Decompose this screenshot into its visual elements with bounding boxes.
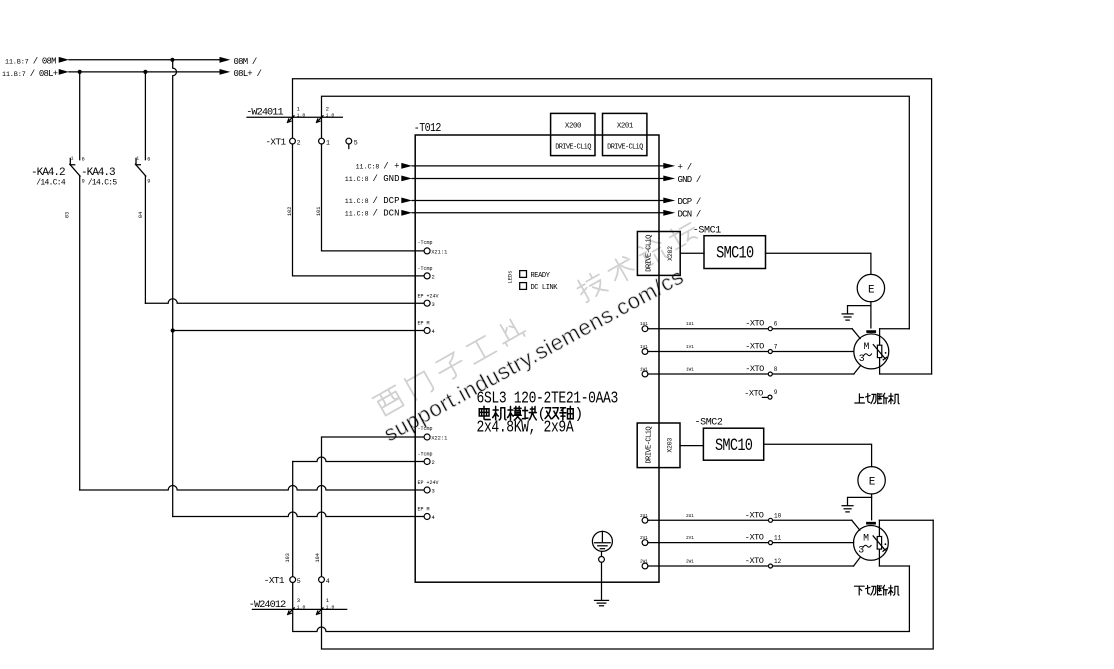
ground symbol PE bbox=[595, 600, 609, 605]
svg-text:5: 5 bbox=[354, 140, 358, 147]
encoder E2 bbox=[858, 467, 885, 494]
svg-text:2x4.8KW, 2x9A: 2x4.8KW, 2x9A bbox=[477, 417, 575, 437]
svg-text:DCP /: DCP / bbox=[678, 197, 701, 207]
svg-text:5: 5 bbox=[297, 578, 301, 585]
terminal XT1:4 bbox=[319, 577, 325, 583]
wire motor2 sensor top to outer bottom loop bbox=[879, 519, 933, 521]
svg-text:X201: X201 bbox=[617, 122, 634, 130]
svg-text:1.0: 1.0 bbox=[297, 113, 306, 119]
svg-text:1: 1 bbox=[136, 156, 139, 162]
svg-text:12: 12 bbox=[774, 558, 782, 565]
wire X202 to SMC1 bbox=[680, 252, 704, 254]
svg-text:-T012: -T012 bbox=[414, 122, 441, 135]
svg-text:103: 103 bbox=[285, 553, 291, 562]
PE pin bbox=[599, 551, 605, 562]
svg-text:03: 03 bbox=[64, 212, 70, 218]
svg-text:M: M bbox=[864, 341, 870, 352]
svg-text:9: 9 bbox=[82, 179, 85, 185]
junction dot 08L+ / KA4.2 bbox=[78, 70, 82, 74]
connector X201 DRIVE-CLiQ bbox=[603, 113, 647, 155]
junction dot 08M / EP M feeder bbox=[170, 58, 174, 62]
svg-text:-XTO: -XTO bbox=[744, 389, 763, 399]
svg-text:): ) bbox=[575, 407, 584, 423]
svg-text:READY: READY bbox=[531, 272, 551, 280]
wire motor1 sensor top to inner loop bbox=[880, 328, 910, 330]
wire PE to ground bbox=[601, 562, 603, 600]
wire E2 down to motor shield bbox=[871, 494, 873, 520]
wire KA4.2 to X22:3 EP +24V with hops bbox=[80, 486, 425, 490]
svg-text:3: 3 bbox=[858, 544, 864, 555]
wire KA4.3 lower drop (wire 04) bbox=[144, 176, 146, 303]
svg-text:DC LINK: DC LINK bbox=[531, 284, 559, 292]
svg-text:EP +24V: EP +24V bbox=[418, 480, 439, 486]
wire 08M drop with hop over 08L+ bbox=[173, 60, 177, 331]
svg-text:6: 6 bbox=[774, 321, 778, 328]
svg-text:SMC10: SMC10 bbox=[716, 243, 754, 263]
svg-text:X202: X202 bbox=[667, 246, 674, 261]
wire X203 to SMC2 bbox=[680, 445, 703, 447]
svg-text:E: E bbox=[869, 477, 876, 489]
wire 101 inner loop: XT1:1 up and across to motor 1 sensor bbox=[322, 96, 910, 329]
wire phase 1U with terminal XTO6 bbox=[648, 319, 860, 339]
ground symbol E1 bbox=[842, 314, 853, 320]
spare terminal XTO9 bbox=[744, 389, 778, 399]
svg-text:-Tcmp: -Tcmp bbox=[418, 240, 433, 246]
brake/shield bar motor 2 bbox=[866, 522, 876, 525]
temperature sensor motor 2 bbox=[873, 520, 886, 566]
svg-text:1: 1 bbox=[326, 140, 330, 147]
terminal XT1:1 bbox=[319, 138, 325, 144]
svg-text:11.C:8 / GND: 11.C:8 / GND bbox=[345, 174, 400, 184]
svg-text:2: 2 bbox=[297, 140, 301, 147]
svg-text:4: 4 bbox=[326, 578, 330, 585]
wire 08M bus bbox=[69, 59, 220, 61]
wire to X21:4 EP M bbox=[173, 330, 425, 332]
ground branch E1 bbox=[848, 306, 871, 314]
wire KA4.2 lower drop (wire 03) bbox=[79, 176, 81, 490]
svg-text:-XTO: -XTO bbox=[745, 556, 764, 566]
svg-text:9: 9 bbox=[774, 389, 778, 396]
svg-text:SMC10: SMC10 bbox=[715, 435, 753, 455]
svg-text:6: 6 bbox=[147, 157, 150, 163]
encoder module SMC1 box SMC10 bbox=[704, 236, 766, 269]
svg-text:X203: X203 bbox=[667, 438, 674, 453]
brake/shield bar motor 1 bbox=[866, 330, 876, 333]
pin 2U2 module output bbox=[640, 514, 648, 523]
svg-text:1W1: 1W1 bbox=[686, 368, 694, 373]
pin 2V2 module output bbox=[640, 536, 648, 545]
pin 1W2 module output bbox=[640, 368, 648, 377]
svg-text:2: 2 bbox=[432, 275, 435, 281]
connector X203 DRIVE-CLiQ bbox=[637, 423, 680, 468]
svg-text:1.0: 1.0 bbox=[326, 113, 335, 119]
wire XT1:5 down to bottom loop with hop bbox=[293, 566, 910, 632]
svg-text:3: 3 bbox=[859, 353, 865, 364]
svg-text:1: 1 bbox=[297, 105, 301, 112]
svg-text:DRIVE-CLiQ: DRIVE-CLiQ bbox=[555, 144, 591, 152]
svg-text:11.B:7 / 08M: 11.B:7 / 08M bbox=[5, 57, 56, 67]
svg-text:/14.C:4: /14.C:4 bbox=[36, 178, 66, 187]
wire KA4.3 to X21:3 EP +24V with hop bbox=[145, 299, 424, 303]
pin X21:2 -Tcmp bbox=[418, 266, 435, 281]
svg-text:-SMC1: -SMC1 bbox=[693, 225, 721, 236]
svg-text:1: 1 bbox=[71, 156, 74, 162]
net 08M right arrow bbox=[220, 57, 231, 63]
svg-text:-XT1: -XT1 bbox=[264, 575, 285, 586]
terminal XT1:3 spare bbox=[346, 138, 358, 148]
pin X22:4 EP M bbox=[418, 507, 435, 522]
encoder E1 bbox=[857, 274, 884, 301]
wire 102 outer loop: XT1:2 up and across to motor 1 sensor bbox=[293, 79, 932, 374]
wire phase 1V with terminal XTO7 bbox=[648, 342, 854, 354]
wire motor1 sensor bottom to outer loop bbox=[880, 373, 932, 375]
svg-text:DRIVE-CLiQ: DRIVE-CLiQ bbox=[607, 144, 643, 152]
wire phase 2W with terminal XTO12 bbox=[648, 556, 860, 568]
net 08M left arrow bbox=[59, 57, 69, 63]
LED READY bbox=[520, 271, 551, 280]
svg-text:1V1: 1V1 bbox=[686, 345, 694, 350]
junction dot 08L+ / KA4.3 bbox=[143, 70, 147, 74]
cable -W24011 bbox=[246, 105, 342, 122]
svg-text:3: 3 bbox=[432, 489, 435, 495]
svg-text:+ /: + / bbox=[678, 162, 692, 172]
svg-text:3: 3 bbox=[297, 597, 300, 604]
svg-text:LEDs: LEDs bbox=[508, 271, 514, 284]
motor 2 circle M 3~ bbox=[854, 526, 889, 561]
svg-text:08M /: 08M / bbox=[234, 57, 257, 67]
wire to X22:4 EP M with hops bbox=[173, 512, 425, 517]
wire 103: X22:2 down through XT1:5 to bottom loop bbox=[292, 462, 294, 577]
wire 08L+ bus bbox=[69, 71, 220, 73]
svg-text:11.C:8 / DCP: 11.C:8 / DCP bbox=[345, 196, 400, 206]
net 08L+ right arrow bbox=[220, 69, 231, 75]
pin X22:1 -Tcmp bbox=[418, 426, 448, 442]
svg-text:/14.C:5: /14.C:5 bbox=[88, 178, 118, 187]
wire phase 2U with terminal XTO10 bbox=[648, 510, 860, 530]
svg-text:-Tcmp: -Tcmp bbox=[418, 426, 433, 432]
svg-text:-Tcmp: -Tcmp bbox=[418, 452, 433, 458]
svg-text:E: E bbox=[868, 284, 875, 296]
svg-text:-XTO: -XTO bbox=[745, 319, 764, 329]
wire XT1:4 down to bottom outer loop bbox=[322, 520, 934, 649]
svg-text:-KA4.2: -KA4.2 bbox=[31, 167, 65, 179]
svg-text:-Tcmp: -Tcmp bbox=[418, 266, 433, 272]
connector X202 DRIVE-CLiQ bbox=[637, 232, 680, 276]
svg-text:10: 10 bbox=[774, 512, 782, 519]
wire XT1:1 down to X21:1 bbox=[322, 144, 425, 251]
svg-text:X22:1: X22:1 bbox=[431, 436, 447, 442]
motor module T012 box bbox=[415, 135, 659, 582]
svg-text:-XTO: -XTO bbox=[745, 342, 764, 352]
svg-text:4: 4 bbox=[432, 515, 435, 521]
encoder module SMC2 box SMC10 bbox=[703, 428, 763, 460]
watermark line A 西门子工业 技术论坛 bbox=[373, 219, 700, 417]
wire KA4.2 upper drop bbox=[79, 72, 81, 160]
svg-text:-XTO: -XTO bbox=[745, 364, 764, 374]
svg-text:4: 4 bbox=[432, 329, 435, 335]
wire phase 2V with terminal XTO11 bbox=[648, 533, 854, 545]
svg-text:1.0: 1.0 bbox=[297, 605, 306, 611]
ground branch E2 bbox=[848, 497, 872, 505]
svg-text:EP +24V: EP +24V bbox=[418, 293, 439, 299]
wire phase 1W with terminal XTO8 bbox=[648, 364, 861, 376]
wire DC DCP bbox=[345, 196, 701, 207]
cable -W24012 bbox=[249, 597, 347, 614]
svg-text:1.0: 1.0 bbox=[326, 605, 335, 611]
junction dot EP M X21:4 bbox=[171, 328, 175, 332]
svg-text:2: 2 bbox=[326, 105, 329, 112]
PE symbol circle bbox=[592, 531, 612, 551]
svg-text:DRIVE-CLiQ: DRIVE-CLiQ bbox=[646, 235, 654, 272]
svg-text:04: 04 bbox=[138, 212, 144, 218]
ground symbol E2 bbox=[842, 506, 853, 512]
wire X22:2 horizontal with hop bbox=[293, 457, 425, 462]
wire KA4.3 upper drop bbox=[144, 72, 146, 160]
wire DC DCN bbox=[345, 209, 701, 220]
svg-text:6: 6 bbox=[82, 157, 85, 163]
wire SMC1 to encoder E1 bbox=[766, 253, 871, 274]
svg-text:M: M bbox=[863, 533, 869, 544]
pin X22:2 -Tcmp bbox=[418, 452, 435, 467]
wire DC + bbox=[356, 162, 692, 173]
contact KA4.3 (NO contact) bbox=[135, 156, 150, 185]
svg-text:11: 11 bbox=[774, 535, 782, 542]
contact KA4.2 (NO contact) bbox=[70, 156, 85, 185]
pin 2W2 module output bbox=[640, 560, 648, 569]
svg-text:2U1: 2U1 bbox=[686, 514, 694, 519]
wire E1 down to motor shield bbox=[870, 302, 872, 328]
svg-text:9: 9 bbox=[147, 179, 150, 185]
label 上切断机 bbox=[855, 393, 899, 404]
svg-text:1U1: 1U1 bbox=[686, 322, 694, 327]
svg-text:X21:1: X21:1 bbox=[431, 250, 447, 256]
LED DC LINK bbox=[520, 283, 559, 292]
pin X22:3 EP +24V bbox=[418, 480, 439, 495]
svg-text:EP M: EP M bbox=[418, 321, 430, 327]
pin 1U2 module output bbox=[640, 322, 648, 331]
svg-text:08L+ /: 08L+ / bbox=[234, 69, 262, 79]
pin X21:3 EP +24V bbox=[418, 293, 439, 308]
svg-text:-XTO: -XTO bbox=[745, 533, 764, 543]
svg-text:-SMC2: -SMC2 bbox=[695, 417, 723, 428]
wire 104: X22:1 down through XT1:4 to bottom outer loop bbox=[322, 437, 425, 577]
svg-text:6SL3 120-2TE21-0AA3: 6SL3 120-2TE21-0AA3 bbox=[477, 388, 619, 408]
connector X200 DRIVE-CLiQ bbox=[551, 113, 595, 155]
pin 1V2 module output bbox=[640, 345, 648, 354]
svg-text:GND /: GND / bbox=[678, 175, 701, 185]
svg-text:2W1: 2W1 bbox=[686, 560, 694, 565]
wire 08M drop continues bbox=[172, 331, 174, 517]
svg-text:-XTO: -XTO bbox=[745, 510, 764, 520]
wire XT1:2 down to X21:2 bbox=[293, 144, 425, 276]
wire SMC2 to encoder E2 bbox=[764, 444, 872, 466]
svg-text:104: 104 bbox=[315, 553, 321, 562]
wire DC GND bbox=[345, 174, 701, 185]
svg-text:11.C:8 / DCN: 11.C:8 / DCN bbox=[345, 209, 400, 219]
label 下切断机 bbox=[854, 585, 899, 595]
net 08L+ left arrow bbox=[59, 69, 69, 75]
svg-text:-KA4.3: -KA4.3 bbox=[81, 167, 115, 179]
svg-text:11.C:8 / +: 11.C:8 / + bbox=[356, 162, 400, 172]
pin X21:4 EP M bbox=[418, 321, 435, 336]
terminal XT1:5 bbox=[290, 577, 296, 583]
svg-text:-XT1: -XT1 bbox=[265, 137, 286, 148]
terminal XT1:2 bbox=[290, 138, 296, 144]
svg-text:DRIVE-CLiQ: DRIVE-CLiQ bbox=[645, 427, 653, 464]
svg-text:3: 3 bbox=[432, 302, 435, 308]
wire motor2 sensor bottom to inner bottom loop bbox=[879, 565, 909, 567]
svg-text:7: 7 bbox=[774, 344, 778, 351]
svg-text:11.B:7 / 08L+: 11.B:7 / 08L+ bbox=[2, 69, 58, 79]
svg-text:DCN /: DCN / bbox=[678, 209, 701, 219]
temperature sensor motor 1 bbox=[873, 329, 886, 374]
module type text line2 电机模块(双轴) bbox=[479, 406, 583, 423]
svg-text:2: 2 bbox=[432, 460, 435, 466]
pin X21:1 -Tcmp bbox=[418, 240, 448, 256]
motor 1 circle M 3~ bbox=[854, 334, 889, 369]
svg-text:1: 1 bbox=[326, 597, 330, 604]
svg-text:X200: X200 bbox=[565, 122, 581, 130]
svg-text:EP M: EP M bbox=[418, 507, 430, 513]
svg-text:2V1: 2V1 bbox=[686, 536, 694, 541]
svg-text:8: 8 bbox=[774, 366, 778, 373]
